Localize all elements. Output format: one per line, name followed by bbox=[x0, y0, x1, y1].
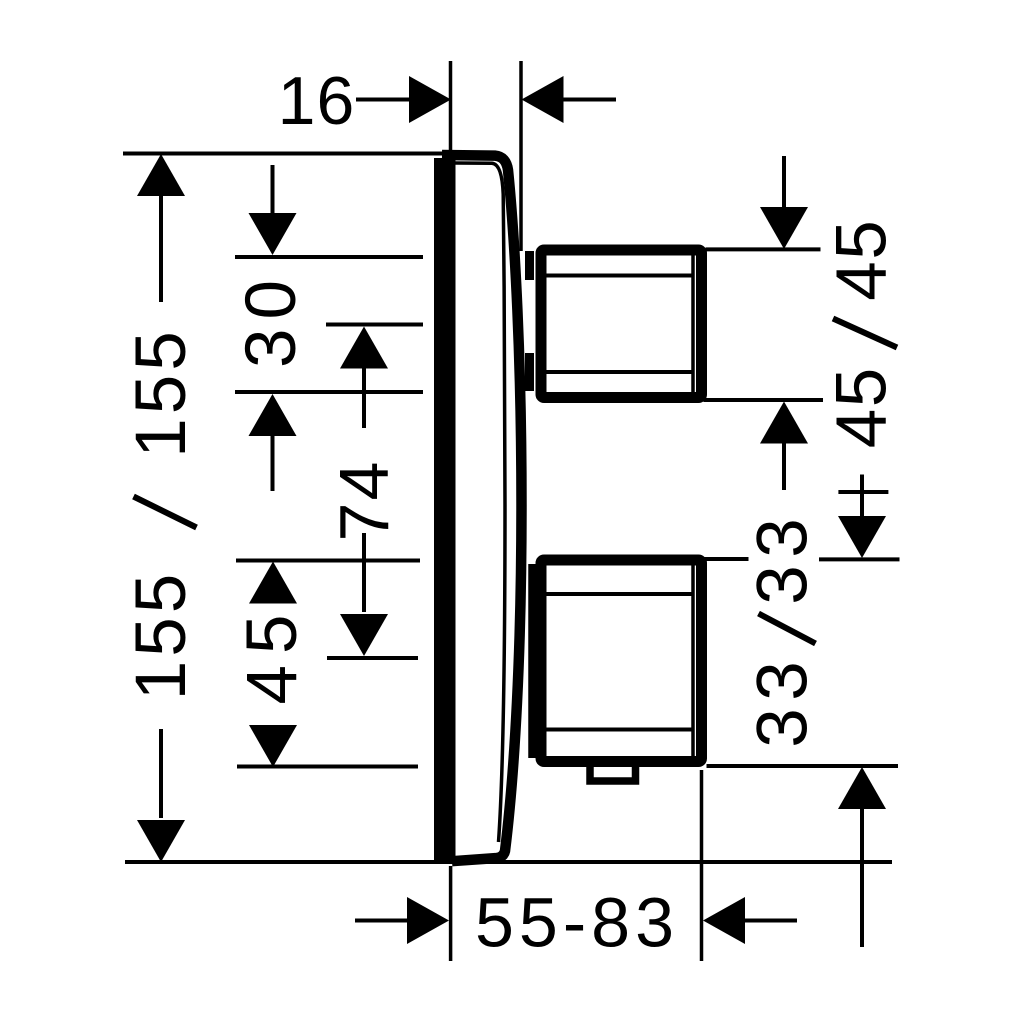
wire 16 extension line 1 bbox=[449, 61, 453, 151]
dimension 155/155 slash bbox=[134, 497, 197, 528]
knob2 inner top line bbox=[547, 592, 695, 596]
knob1 neck upper segment bbox=[525, 251, 534, 280]
wire 55-83 right tail bbox=[744, 919, 797, 923]
wire 30 upper tail bbox=[271, 165, 275, 217]
svg-text:155: 155 bbox=[122, 570, 201, 700]
wire bottom wall reference line bbox=[125, 860, 892, 864]
wire dim line C (knob1 bottom, left) bbox=[235, 390, 423, 394]
wire dim line R4 (knob2 bottom, right) bbox=[707, 764, 899, 768]
wire 33/33 lower tail bbox=[860, 807, 864, 947]
svg-text:45: 45 bbox=[823, 366, 902, 448]
wire 30 lower tail bbox=[271, 434, 275, 491]
svg-text:74: 74 bbox=[325, 460, 403, 542]
wire top reference line L1 bbox=[123, 152, 444, 156]
wire 33/33 tick mark bbox=[838, 490, 888, 494]
knob2 inner right line bbox=[691, 561, 695, 760]
dimension 45/45 slash bbox=[833, 319, 897, 348]
arrow 74 up bbox=[340, 327, 388, 369]
escutcheon plate left band bbox=[434, 158, 456, 864]
svg-text:33: 33 bbox=[744, 654, 823, 748]
knob2 neck line bbox=[528, 564, 537, 758]
knob1 inner top line bbox=[547, 274, 695, 278]
wire dim line D (knob2 axis, left) bbox=[327, 656, 418, 660]
arrow 30 down bbox=[249, 213, 297, 255]
wire 74 lower tail bbox=[362, 533, 366, 612]
arrow 33/33 up bbox=[838, 767, 886, 809]
wire 16 left tail bbox=[356, 98, 410, 102]
wire 155 upper tail bbox=[159, 194, 163, 302]
wire 74 upper tail bbox=[362, 367, 366, 428]
svg-text:30: 30 bbox=[232, 271, 311, 368]
wire dim line R3 left segment (knob2 top, right) bbox=[703, 557, 749, 561]
wire 155 lower tail bbox=[159, 729, 163, 818]
arrow 30 up bbox=[249, 394, 297, 436]
knob1 inner right line bbox=[691, 251, 695, 396]
svg-text:55-83: 55-83 bbox=[475, 884, 679, 962]
arrow 33/33 down bbox=[838, 516, 886, 558]
wire 55-83 extension line right bbox=[700, 770, 704, 961]
svg-text:45: 45 bbox=[823, 219, 902, 301]
wire 16 extension line 2 bbox=[519, 61, 523, 251]
wire dim line R1 (knob1 top, right) bbox=[706, 247, 821, 251]
svg-text:155: 155 bbox=[122, 327, 201, 457]
wire dim line F (knob2 bottom, left) bbox=[237, 765, 418, 769]
wire dim line E (knob2 top, left) bbox=[236, 559, 420, 563]
knob1 neck lower segment bbox=[525, 353, 534, 391]
wire 33/33 upper tail bbox=[860, 475, 864, 521]
svg-text:16: 16 bbox=[278, 63, 356, 139]
wire 45/45 lower tail bbox=[782, 442, 786, 490]
arrow 45/45 down bbox=[760, 207, 808, 249]
knob1 (top handle) body bbox=[541, 250, 702, 398]
knob2 safety tab bbox=[590, 766, 636, 781]
arrow 55-83 right-pointing bbox=[407, 897, 449, 944]
arrow 45-left down bbox=[249, 725, 297, 767]
svg-text:33: 33 bbox=[744, 511, 823, 605]
wire 45/45 upper tail bbox=[782, 156, 786, 209]
wire 55-83 left tail bbox=[355, 919, 409, 923]
wire dim line B (knob1 axis, left) bbox=[326, 323, 423, 327]
knob2 inner bottom line bbox=[547, 728, 695, 732]
wire dim line A (knob1 top, left) bbox=[235, 255, 423, 259]
arrow 74 down bbox=[340, 614, 388, 656]
arrow 45-left up bbox=[249, 562, 297, 604]
wire 16 right tail bbox=[563, 98, 616, 102]
knob2 (bottom handle) body bbox=[541, 560, 702, 762]
arrow 155 down bbox=[137, 820, 185, 862]
arrow 16 left-pointing bbox=[522, 76, 564, 123]
wire dim line R3 right segment bbox=[819, 557, 900, 561]
wire dim line R2 (knob1 bottom, right) bbox=[704, 398, 824, 402]
svg-text:45: 45 bbox=[233, 604, 312, 705]
dimension 33/33 slash bbox=[759, 614, 816, 644]
knob1 inner bottom line bbox=[547, 370, 695, 374]
wire 55-83 extension line left bbox=[449, 866, 453, 961]
arrow 45/45 up bbox=[760, 402, 808, 444]
escutcheon plate inner contour bbox=[455, 163, 505, 842]
arrow 55-83 left-pointing bbox=[703, 897, 745, 944]
arrow 16 right-pointing bbox=[409, 76, 451, 123]
arrow 155 up bbox=[137, 154, 185, 196]
escutcheon plate outline bbox=[442, 155, 522, 861]
